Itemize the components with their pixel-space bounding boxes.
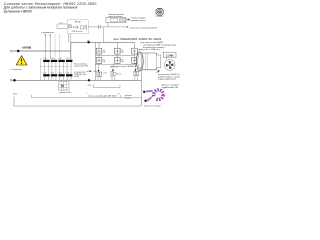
svg-text:4шт 60км5/IGBT 1200V 5А 19/04: 4шт 60км5/IGBT 1200V 5А 19/04 bbox=[114, 38, 162, 41]
svg-text:С 2406: С 2406 bbox=[166, 54, 174, 57]
svg-text:сеть: сеть bbox=[60, 22, 63, 24]
svg-text:конденсаторы 450В: конденсаторы 450В bbox=[74, 66, 88, 68]
svg-text:+500В: +500В bbox=[21, 47, 31, 50]
svg-text:От булыжника: От булыжника bbox=[11, 69, 22, 71]
svg-text:конденс.: конденс. bbox=[125, 98, 133, 100]
svg-text:обдув радиаторов: обдув радиаторов bbox=[158, 79, 176, 81]
svg-text:кгб: кгб bbox=[103, 59, 105, 61]
svg-text:7В: 7В bbox=[118, 93, 120, 95]
svg-text:драйверы как у ПИЛОТА: драйверы как у ПИЛОТА bbox=[110, 65, 137, 68]
svg-text:кгб: кгб bbox=[121, 49, 123, 51]
svg-text:как на схеме для АТ 300: как на схеме для АТ 300 bbox=[88, 94, 116, 97]
svg-text:Булыжник НВ600: Булыжник НВ600 bbox=[4, 9, 32, 13]
svg-text:Дроссель на феррите: Дроссель на феррите bbox=[162, 83, 180, 86]
svg-text:подкл. вент. 220В сеть: подкл. вент. 220В сеть bbox=[139, 49, 160, 51]
svg-text:Плата инвертора: Плата инвертора bbox=[74, 63, 87, 65]
svg-text:кгб: кгб bbox=[121, 59, 123, 61]
svg-text:к управлению: к управлению bbox=[41, 32, 54, 34]
svg-text:какой нашёл 2А: какой нашёл 2А bbox=[162, 86, 179, 89]
svg-text:6 СНУБЕРОВ: 6 СНУБЕРОВ bbox=[74, 72, 85, 74]
svg-text:датчик тока: датчик тока bbox=[60, 92, 71, 94]
svg-text:Реле: Реле bbox=[13, 93, 17, 95]
svg-text:ВТ139: ВТ139 bbox=[75, 22, 82, 24]
svg-text:МОСЭНЕРГО: МОСЭНЕРГО bbox=[156, 16, 165, 18]
svg-text:индикации и управл.: индикации и управл. bbox=[130, 20, 146, 22]
svg-text:12В: 12В bbox=[87, 40, 90, 42]
svg-text:(намотано 7,5 витков): (намотано 7,5 витков) bbox=[144, 106, 161, 108]
svg-text:кгб: кгб bbox=[103, 49, 105, 51]
svg-text:кгб: кгб bbox=[138, 49, 140, 51]
svg-text:питание часов и прочих мелочей: питание часов и прочих мелочей 5В bbox=[130, 26, 158, 29]
svg-text:400В: 400В bbox=[74, 76, 79, 78]
svg-text:вент: вент bbox=[140, 67, 143, 69]
